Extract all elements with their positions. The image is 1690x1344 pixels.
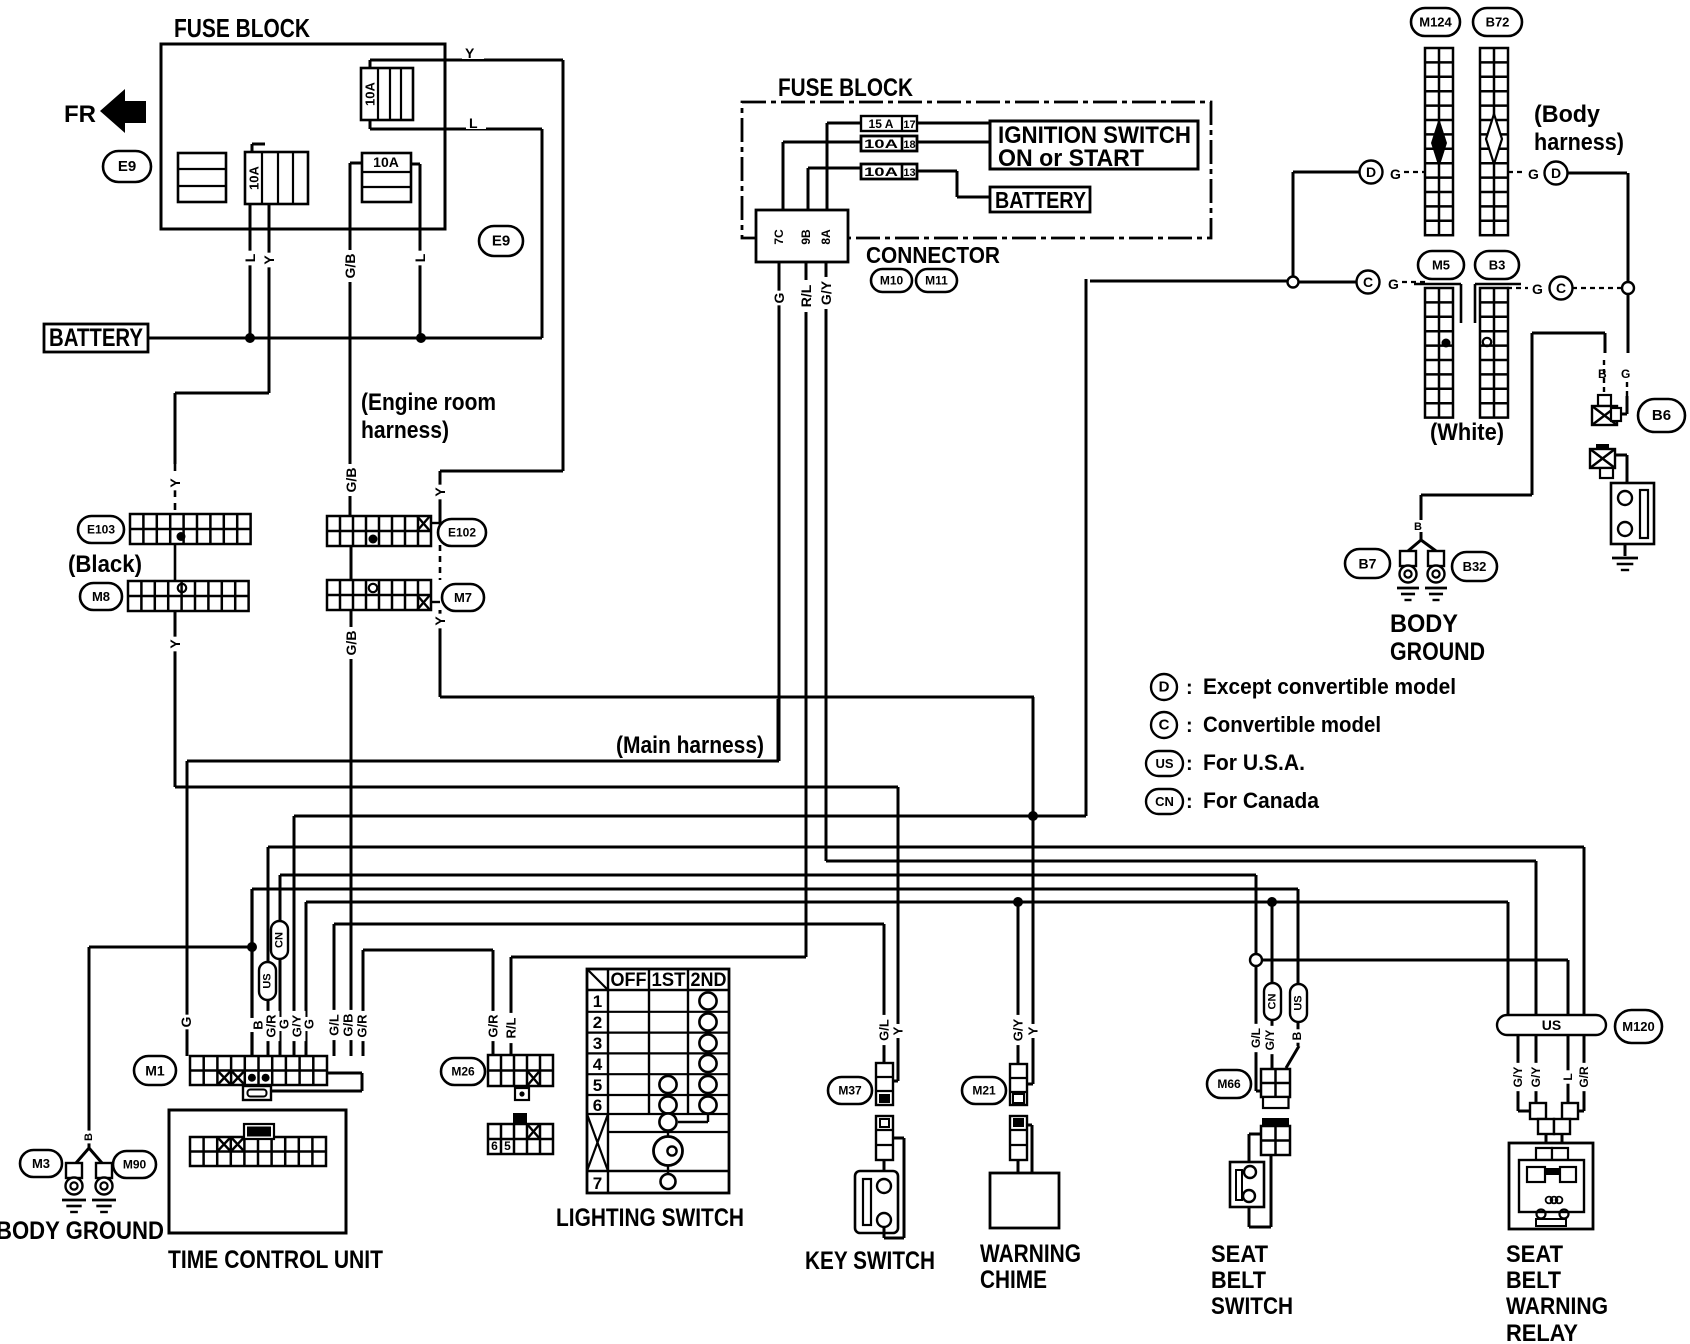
wire label G/Y (relay 1) <box>1510 1063 1526 1091</box>
wire label G/Y (TCU pin 5) <box>289 1011 306 1041</box>
svg-text:M5: M5 <box>1432 258 1450 273</box>
svg-text:G/Y: G/Y <box>1529 1067 1543 1088</box>
connector M1 grid <box>190 1056 327 1085</box>
lighting switch header labels <box>611 970 727 991</box>
svg-text:L: L <box>1561 1073 1575 1080</box>
wire door switch to ground <box>1624 536 1627 556</box>
svg-text:G: G <box>1390 166 1401 182</box>
wire label G (M5 left) <box>1388 276 1425 292</box>
fuse block dashed outline <box>742 102 1211 238</box>
svg-text:R/L: R/L <box>798 284 814 307</box>
connector E103 grid <box>130 514 251 544</box>
svg-text:CONNECTOR: CONNECTOR <box>866 242 1000 268</box>
connector E102 grid <box>327 516 431 546</box>
connector B72 grid <box>1480 48 1508 235</box>
wire label R/L (connector 9B) <box>797 280 815 312</box>
wire bus G/Y time control unit to relay with chime and CN taps <box>306 902 1508 1056</box>
seat belt switch body <box>1230 1162 1264 1207</box>
wire label Y (M8 out) <box>166 637 184 652</box>
wire label G/L (key switch) <box>876 1015 893 1045</box>
relay connector <box>1530 1103 1578 1134</box>
ring terminal M90 ground <box>96 1163 112 1178</box>
circled D left <box>1360 161 1383 184</box>
junction ring C net left <box>1288 277 1299 288</box>
connector label M120 <box>1615 1010 1662 1043</box>
caption SEAT BELT WARNING RELAY <box>1506 1241 1608 1344</box>
svg-text:B7: B7 <box>1359 556 1377 572</box>
svg-text:M7: M7 <box>454 590 472 605</box>
wire label B (TCU pin 2) <box>250 1018 267 1032</box>
svg-text:10A: 10A <box>864 137 899 151</box>
svg-text:(Main harness): (Main harness) <box>616 732 764 759</box>
wire label G + circled C right <box>1507 277 1623 300</box>
svg-text:B3: B3 <box>1489 258 1506 273</box>
svg-text:2: 2 <box>593 1013 602 1032</box>
caption WARNING CHIME <box>980 1240 1081 1294</box>
svg-text:E102: E102 <box>448 526 476 540</box>
wire label G (TCU pin 1) <box>177 1015 195 1030</box>
lighting switch rotary contact <box>654 1131 683 1189</box>
svg-text:SWITCH: SWITCH <box>1211 1293 1293 1320</box>
wire B time control unit to body ground M3/M90 <box>76 947 252 1163</box>
svg-text:M37: M37 <box>838 1084 862 1098</box>
wire fuse 10A-18 to ignition switch <box>783 142 990 210</box>
svg-text:CN: CN <box>274 932 286 948</box>
connector label M124 <box>1411 8 1460 36</box>
svg-text:(Engine room: (Engine room <box>361 389 496 416</box>
svg-text:CN: CN <box>1155 794 1174 809</box>
connector label M3 <box>20 1150 62 1177</box>
svg-text:C: C <box>1556 280 1566 296</box>
svg-text:G: G <box>1528 166 1539 182</box>
svg-text:B6: B6 <box>1652 407 1671 424</box>
svg-text:D: D <box>1366 164 1376 180</box>
svg-text:Y: Y <box>465 45 475 61</box>
svg-text:G/L: G/L <box>327 1014 342 1036</box>
svg-text::: : <box>1186 753 1193 775</box>
wire label Y (fuse F2) <box>260 253 278 268</box>
junction dot battery/fuse D L <box>416 333 426 343</box>
connector B6 upper half <box>1592 395 1621 425</box>
time control unit box <box>169 1110 346 1233</box>
wire label R/L (M26 right) <box>503 1013 520 1043</box>
lighting switch contacts 1ST column <box>659 1076 676 1114</box>
svg-text:BATTERY: BATTERY <box>995 187 1086 213</box>
svg-text:3: 3 <box>593 1034 602 1053</box>
connector M26 grid <box>488 1055 553 1086</box>
svg-text:G/R: G/R <box>1577 1066 1591 1088</box>
svg-text:G: G <box>178 1016 194 1027</box>
wire label L (fuse F1 out) <box>466 114 486 131</box>
wire label G/R (TCU pin 3) <box>263 1011 280 1041</box>
svg-text:C: C <box>1363 274 1373 290</box>
wire tap G/Y to seat belt switch CN <box>1271 902 1274 1069</box>
svg-text:E9: E9 <box>492 233 510 250</box>
wire chime connector to box <box>1018 1125 1032 1173</box>
wire G/Y from connector 8A to seat belt warning relay <box>826 262 1536 1016</box>
wire label G (connector 7C) <box>770 291 788 306</box>
CN pill on time control unit G wire <box>271 921 288 959</box>
svg-text:CN: CN <box>1267 994 1279 1010</box>
key switch body <box>855 1171 898 1233</box>
wire label Y (M7 out) <box>431 614 449 629</box>
wire label L (fuse F2) <box>241 251 259 266</box>
svg-text:G: G <box>1388 276 1399 292</box>
svg-text:10A: 10A <box>864 165 899 179</box>
svg-text:WARNING: WARNING <box>1506 1293 1608 1320</box>
connector label B6 <box>1638 399 1685 432</box>
connector label M66 <box>1207 1070 1251 1098</box>
svg-text:(White): (White) <box>1430 419 1504 446</box>
battery box (left) <box>44 324 148 352</box>
wire label G/R (relay) <box>1576 1063 1592 1091</box>
fuse 10A no.13 <box>861 164 917 179</box>
ring terminal B7 <box>1400 551 1416 566</box>
svg-text:13: 13 <box>903 167 915 179</box>
wire label G/B (E102 in) <box>342 464 360 496</box>
wire L from fuse F2 to battery bus <box>250 144 265 338</box>
warning chime box <box>990 1173 1059 1228</box>
main harness box right edge <box>777 699 780 760</box>
note (Body harness) <box>1534 101 1624 156</box>
svg-text:For Canada: For Canada <box>1203 788 1320 813</box>
svg-text:B: B <box>1290 1031 1304 1040</box>
fuse 10A middle <box>245 152 308 204</box>
svg-text:1: 1 <box>593 992 602 1011</box>
svg-text:Convertible model: Convertible model <box>1203 712 1381 737</box>
svg-text:15 A: 15 A <box>869 117 894 131</box>
legend circled D <box>1151 674 1456 700</box>
wire bus G/R time control unit to relay <box>268 847 1584 1056</box>
connector M124 grid <box>1425 48 1453 235</box>
svg-text:E103: E103 <box>87 523 115 537</box>
svg-text:L: L <box>242 253 258 262</box>
fuse 10A right <box>362 153 411 202</box>
svg-text:10A: 10A <box>373 154 399 170</box>
svg-text:M124: M124 <box>1419 15 1452 30</box>
connector M8 grid <box>128 581 249 611</box>
fuse 10A no.18 <box>861 136 917 151</box>
svg-text:9B: 9B <box>799 229 813 245</box>
wire G/R time control unit to M26 <box>363 950 493 1056</box>
wire label Y (warning chime) <box>1025 1024 1042 1038</box>
time control unit internal connector grid <box>190 1137 326 1166</box>
wire L from fuse F3 to battery bus <box>411 164 420 338</box>
wire Y bus from M7 to warning chime <box>440 610 1034 1084</box>
wire label G + circled D right <box>1508 162 1568 185</box>
svg-text:BATTERY: BATTERY <box>49 324 143 352</box>
door switch box B6 <box>1611 483 1654 544</box>
connector label M90 <box>113 1151 156 1178</box>
svg-text:2ND: 2ND <box>691 970 727 991</box>
ignition switch box <box>990 121 1198 172</box>
wire label G/R (M26 left) <box>485 1011 502 1041</box>
wire label Y (E102 in) <box>431 485 449 500</box>
svg-text:BODY GROUND: BODY GROUND <box>0 1217 164 1245</box>
svg-text::: : <box>1186 677 1193 699</box>
key switch connector upper <box>876 1063 893 1105</box>
svg-text:7C: 7C <box>772 229 786 245</box>
wire key switch loop <box>884 1138 904 1238</box>
svg-text:L: L <box>469 115 478 131</box>
connector label E103 <box>78 516 124 543</box>
svg-text:G/L: G/L <box>877 1019 892 1041</box>
svg-text:Y: Y <box>891 1026 906 1035</box>
svg-text:M90: M90 <box>123 1158 147 1172</box>
connector label M1 <box>134 1056 176 1085</box>
svg-text:8A: 8A <box>819 229 833 245</box>
svg-text:B: B <box>1598 367 1607 381</box>
svg-text:US: US <box>1542 1017 1561 1033</box>
svg-text:R/L: R/L <box>504 1017 519 1038</box>
svg-text:10A: 10A <box>247 165 262 189</box>
svg-text:BELT: BELT <box>1506 1267 1561 1294</box>
svg-text:M21: M21 <box>972 1084 996 1098</box>
svg-text:M26: M26 <box>451 1065 475 1079</box>
ground symbol B32 <box>1425 587 1447 590</box>
svg-text:KEY SWITCH: KEY SWITCH <box>805 1247 935 1275</box>
svg-text:G: G <box>302 1019 317 1029</box>
svg-text:B: B <box>83 1133 95 1141</box>
svg-text:G/B: G/B <box>343 468 359 493</box>
svg-text:Y: Y <box>167 639 183 649</box>
junction dot G/Y bus / warning chime <box>1013 897 1023 907</box>
svg-text:D: D <box>1551 165 1561 181</box>
svg-text::: : <box>1186 791 1193 813</box>
connector label E9 <box>103 151 151 182</box>
wire G/B from fuse F3 to connector E102 <box>350 163 362 516</box>
connector label M37 <box>828 1077 872 1104</box>
wire label G/B (fuse F3) <box>341 250 359 282</box>
wire key switch connector to contact <box>883 1160 886 1179</box>
wire label G/Y (warning chime) <box>1010 1015 1027 1045</box>
wire label B (seat belt switch) <box>1289 1029 1305 1042</box>
svg-text:(Body: (Body <box>1534 101 1601 128</box>
wire Y from fuse F1 to connector E102 <box>370 60 563 523</box>
warning chime connector upper <box>1010 1064 1027 1105</box>
svg-text:OFF: OFF <box>611 970 647 991</box>
wire C net left <box>1090 281 1360 282</box>
svg-text:US: US <box>1155 756 1173 771</box>
fuse 15A no.17 <box>861 116 917 131</box>
svg-text:US: US <box>262 973 274 988</box>
svg-text:G/R: G/R <box>355 1014 370 1038</box>
wire label G/L (TCU pin 7) <box>326 1010 343 1040</box>
wire label B (body ground M3/M90) <box>82 1131 96 1144</box>
svg-text:G: G <box>771 292 787 303</box>
svg-text:Y: Y <box>261 255 277 265</box>
seat belt switch second grid <box>1261 1118 1290 1155</box>
fuse block E9 outline <box>161 44 445 229</box>
wire B net to body grounds B7/B32 <box>1408 333 1532 551</box>
lighting switch contacts 2ND column <box>699 992 716 1113</box>
svg-text:G/L: G/L <box>1249 1028 1263 1048</box>
wire bus B time control unit to seat belt switch <box>252 889 1299 1068</box>
svg-text:FUSE BLOCK: FUSE BLOCK <box>174 13 310 43</box>
wire from junction ring to seat belt switch G/L <box>1256 966 1263 1091</box>
wire label Y (fuse F1 out) <box>462 44 484 61</box>
svg-text:BODY: BODY <box>1390 610 1458 638</box>
CN pill on seat belt switch wire <box>1264 983 1281 1020</box>
junction dot G/Y bus / seat belt switch <box>1267 897 1277 907</box>
connector block 7C/9B/8A <box>756 210 848 262</box>
svg-text:Y: Y <box>432 487 448 497</box>
svg-text:G/B: G/B <box>342 254 358 279</box>
svg-text:B32: B32 <box>1463 559 1487 574</box>
fuse 10A top right <box>361 60 413 129</box>
svg-text:18: 18 <box>903 139 915 151</box>
svg-text:M3: M3 <box>32 1156 50 1171</box>
wire G net to B6 <box>1620 294 1628 414</box>
wire B6 connector to door switch <box>1615 455 1627 483</box>
wire G/B from connector M7 to time control unit <box>350 610 353 1056</box>
svg-text:TIME CONTROL UNIT: TIME CONTROL UNIT <box>168 1246 383 1274</box>
wire label G/Y (seat belt switch CN) <box>1262 1026 1278 1054</box>
connector M66 grid <box>1261 1069 1290 1108</box>
wire seat belt switch loop <box>1249 1134 1271 1227</box>
wire label G (M124 left) <box>1390 166 1425 182</box>
svg-text:G: G <box>1532 281 1543 297</box>
wire label Y (key switch) <box>890 1024 907 1038</box>
wire bus G/L time control unit to key switch <box>334 924 884 1063</box>
svg-text:FUSE BLOCK: FUSE BLOCK <box>778 74 913 102</box>
svg-text:7: 7 <box>593 1174 602 1193</box>
wire Y from connector E103 to M8 <box>174 544 177 581</box>
wire label G/Y (connector 8A) <box>817 277 835 309</box>
wire battery bus <box>148 337 542 340</box>
battery box (main) <box>990 187 1090 213</box>
US pill on seat belt switch B wire <box>1290 984 1307 1022</box>
wire loop M1 right side <box>271 1073 362 1091</box>
wire bus G/Y time control unit to D/C vertical <box>294 279 1086 1056</box>
M1 auxiliary sub-connector <box>243 1086 271 1100</box>
ring terminal M3 ground <box>66 1163 82 1178</box>
svg-text:BELT: BELT <box>1211 1267 1266 1294</box>
svg-text:Y: Y <box>167 478 183 488</box>
wire D net right <box>1567 173 1628 282</box>
svg-text:Except convertible model: Except convertible model <box>1203 674 1456 699</box>
wire L from fuse F1 to battery bus <box>370 129 542 338</box>
svg-text:6: 6 <box>593 1096 602 1115</box>
wire label L (relay) <box>1560 1070 1576 1083</box>
svg-text:WARNING: WARNING <box>980 1240 1081 1268</box>
wire fuse 15A to ignition switch <box>827 123 990 210</box>
junction dot B wire / body ground <box>247 942 257 952</box>
svg-text:RELAY: RELAY <box>1506 1320 1578 1344</box>
note engine room harness <box>361 389 496 444</box>
svg-text:17: 17 <box>903 119 915 131</box>
svg-text:CHIME: CHIME <box>980 1266 1047 1294</box>
wire label G/R (TCU pin 9) <box>354 1011 371 1041</box>
wire Y from connector E102 to M7 <box>431 523 440 602</box>
connector B6 lower half <box>1590 444 1615 478</box>
US pill on time control unit G/R wire <box>259 962 276 1000</box>
wire label G/L (seat belt switch) <box>1248 1024 1264 1052</box>
wire D net left <box>1293 172 1360 277</box>
open junction ring (seat belt G/L) <box>1250 954 1262 966</box>
svg-text:G: G <box>1621 367 1630 381</box>
caption SEAT BELT SWITCH <box>1211 1241 1293 1320</box>
connector label M21 <box>962 1077 1006 1104</box>
lighting switch table <box>587 969 729 1193</box>
wire G bus from connector 7C to time control unit <box>187 262 779 1056</box>
svg-text::: : <box>1186 715 1193 737</box>
circled C left <box>1357 271 1380 294</box>
connector M7 grid <box>327 580 431 610</box>
wire bus G time control unit (CN) to seat belt switch <box>280 875 1256 1056</box>
connector label B72 <box>1473 8 1522 36</box>
svg-text:FR: FR <box>64 101 96 128</box>
connector label M10 <box>871 269 912 292</box>
ground symbol B7 <box>1397 587 1419 590</box>
wire label G/B (M7 out) <box>342 627 360 659</box>
svg-text:G/R: G/R <box>486 1014 501 1038</box>
connector label E102 <box>438 519 486 546</box>
svg-text:5: 5 <box>593 1076 602 1095</box>
M26 second grid with black key <box>488 1113 553 1154</box>
relay wires below US pill <box>1518 1035 1584 1111</box>
svg-text:M120: M120 <box>1622 1019 1655 1034</box>
svg-text:4: 4 <box>593 1055 603 1074</box>
wire G/B between connectors E102 and M7 <box>350 546 353 580</box>
svg-text:L: L <box>412 253 428 262</box>
warning chime connector lower <box>1010 1116 1027 1160</box>
svg-text:B: B <box>1414 521 1422 533</box>
svg-text:M66: M66 <box>1217 1077 1241 1091</box>
wire label L (fuse F3 right) <box>411 251 429 266</box>
connector label B7 <box>1345 549 1390 578</box>
lighting switch row numbers <box>593 992 603 1193</box>
svg-text:5: 5 <box>504 1139 511 1153</box>
svg-text:Y: Y <box>1026 1026 1041 1035</box>
junction ring D/C net right <box>1622 282 1634 294</box>
svg-text:G/B: G/B <box>343 631 359 656</box>
svg-text:Y: Y <box>432 616 448 626</box>
svg-text:M11: M11 <box>925 274 948 288</box>
ring terminal B32 <box>1428 551 1444 566</box>
svg-text:10A: 10A <box>363 81 378 105</box>
wire R/L from connector 9B to M26 <box>511 262 806 1055</box>
svg-text:ON or START: ON or START <box>998 145 1144 172</box>
caption BODY GROUND (right) <box>1390 610 1485 666</box>
svg-text:G/Y: G/Y <box>1011 1018 1026 1041</box>
svg-text:For U.S.A.: For U.S.A. <box>1203 750 1305 775</box>
wire from junction ring to relay L <box>1262 960 1568 1016</box>
fuse plain left <box>178 153 226 202</box>
svg-text:M10: M10 <box>880 274 904 288</box>
connector label M5 <box>1418 251 1464 279</box>
svg-text:B72: B72 <box>1486 15 1510 30</box>
FR direction arrow <box>64 89 146 133</box>
US pill on relay wires <box>1497 1015 1606 1035</box>
svg-text:GROUND: GROUND <box>1390 638 1485 666</box>
svg-text:E9: E9 <box>118 158 136 175</box>
legend US <box>1146 750 1305 776</box>
lighting switch movable contact link <box>659 1113 708 1130</box>
time control unit internal black component <box>244 1124 274 1139</box>
svg-text:6: 6 <box>491 1139 498 1153</box>
connector label M8 <box>80 583 122 610</box>
wire B net to B6 connector <box>1532 333 1605 396</box>
svg-text:(Black): (Black) <box>68 551 142 578</box>
svg-text:C: C <box>1159 717 1170 734</box>
ground symbol M90 <box>92 1199 116 1202</box>
wire Y from fuse F2 to connector E103 <box>175 204 269 514</box>
wire fuse 10A-13 to battery <box>808 168 990 210</box>
wire label Y (E103 in) <box>166 476 184 491</box>
svg-text:harness): harness) <box>361 417 449 444</box>
svg-text:US: US <box>1293 995 1305 1010</box>
